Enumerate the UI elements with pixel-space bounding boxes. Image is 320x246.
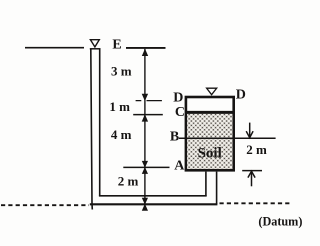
arrowheads hourglass at A [142,161,148,168]
svg-text:(Datum): (Datum) [258,215,302,229]
wire: U-bend outer bottom [90,203,218,205]
svg-text:D: D [236,88,246,103]
arrow down (right 2m dim top) [249,123,251,137]
svg-text:B: B [170,130,179,145]
water level symbol (tank) [207,88,217,95]
datum dashed line (left) [1,204,89,206]
wire: level B line [179,137,276,139]
svg-text:2 m: 2 m [118,174,139,189]
soil container tank [186,97,234,170]
svg-text:3 m: 3 m [111,64,132,79]
arrowhead down at D [142,94,148,101]
soil body (stippled) [187,114,232,169]
svg-text:4 m: 4 m [111,127,132,142]
arrow up (right 2m dim bottom) [248,171,255,177]
node A tick [123,166,169,168]
wire: level E line [126,47,166,49]
soil top line (level C) [187,111,233,114]
svg-text:1 m: 1 m [109,99,130,114]
arrowhead up at E [142,49,148,56]
wire: ground-water table line (top left) [25,47,84,49]
water level symbol (standpipe) [90,40,99,47]
svg-text:A: A [174,158,185,173]
svg-text:C: C [175,105,185,120]
pipe below tank (right riser) [205,172,207,196]
wire: vertical dimension line E to datum [144,49,146,204]
node tick (tank bottom right) [242,170,262,172]
svg-text:2 m: 2 m [246,142,267,157]
arrowhead up at C [142,114,148,121]
svg-text:E: E [112,38,121,53]
arrowheads hourglass at datum [142,198,148,205]
svg-text:D: D [173,90,183,105]
standpipe (left vertical tube) [91,49,93,210]
datum dashed line (right) [220,202,292,204]
svg-text:Soil: Soil [198,146,222,162]
node C tick [133,114,163,116]
wire: U-bend inner bottom [99,195,207,197]
node D tick [136,100,162,102]
